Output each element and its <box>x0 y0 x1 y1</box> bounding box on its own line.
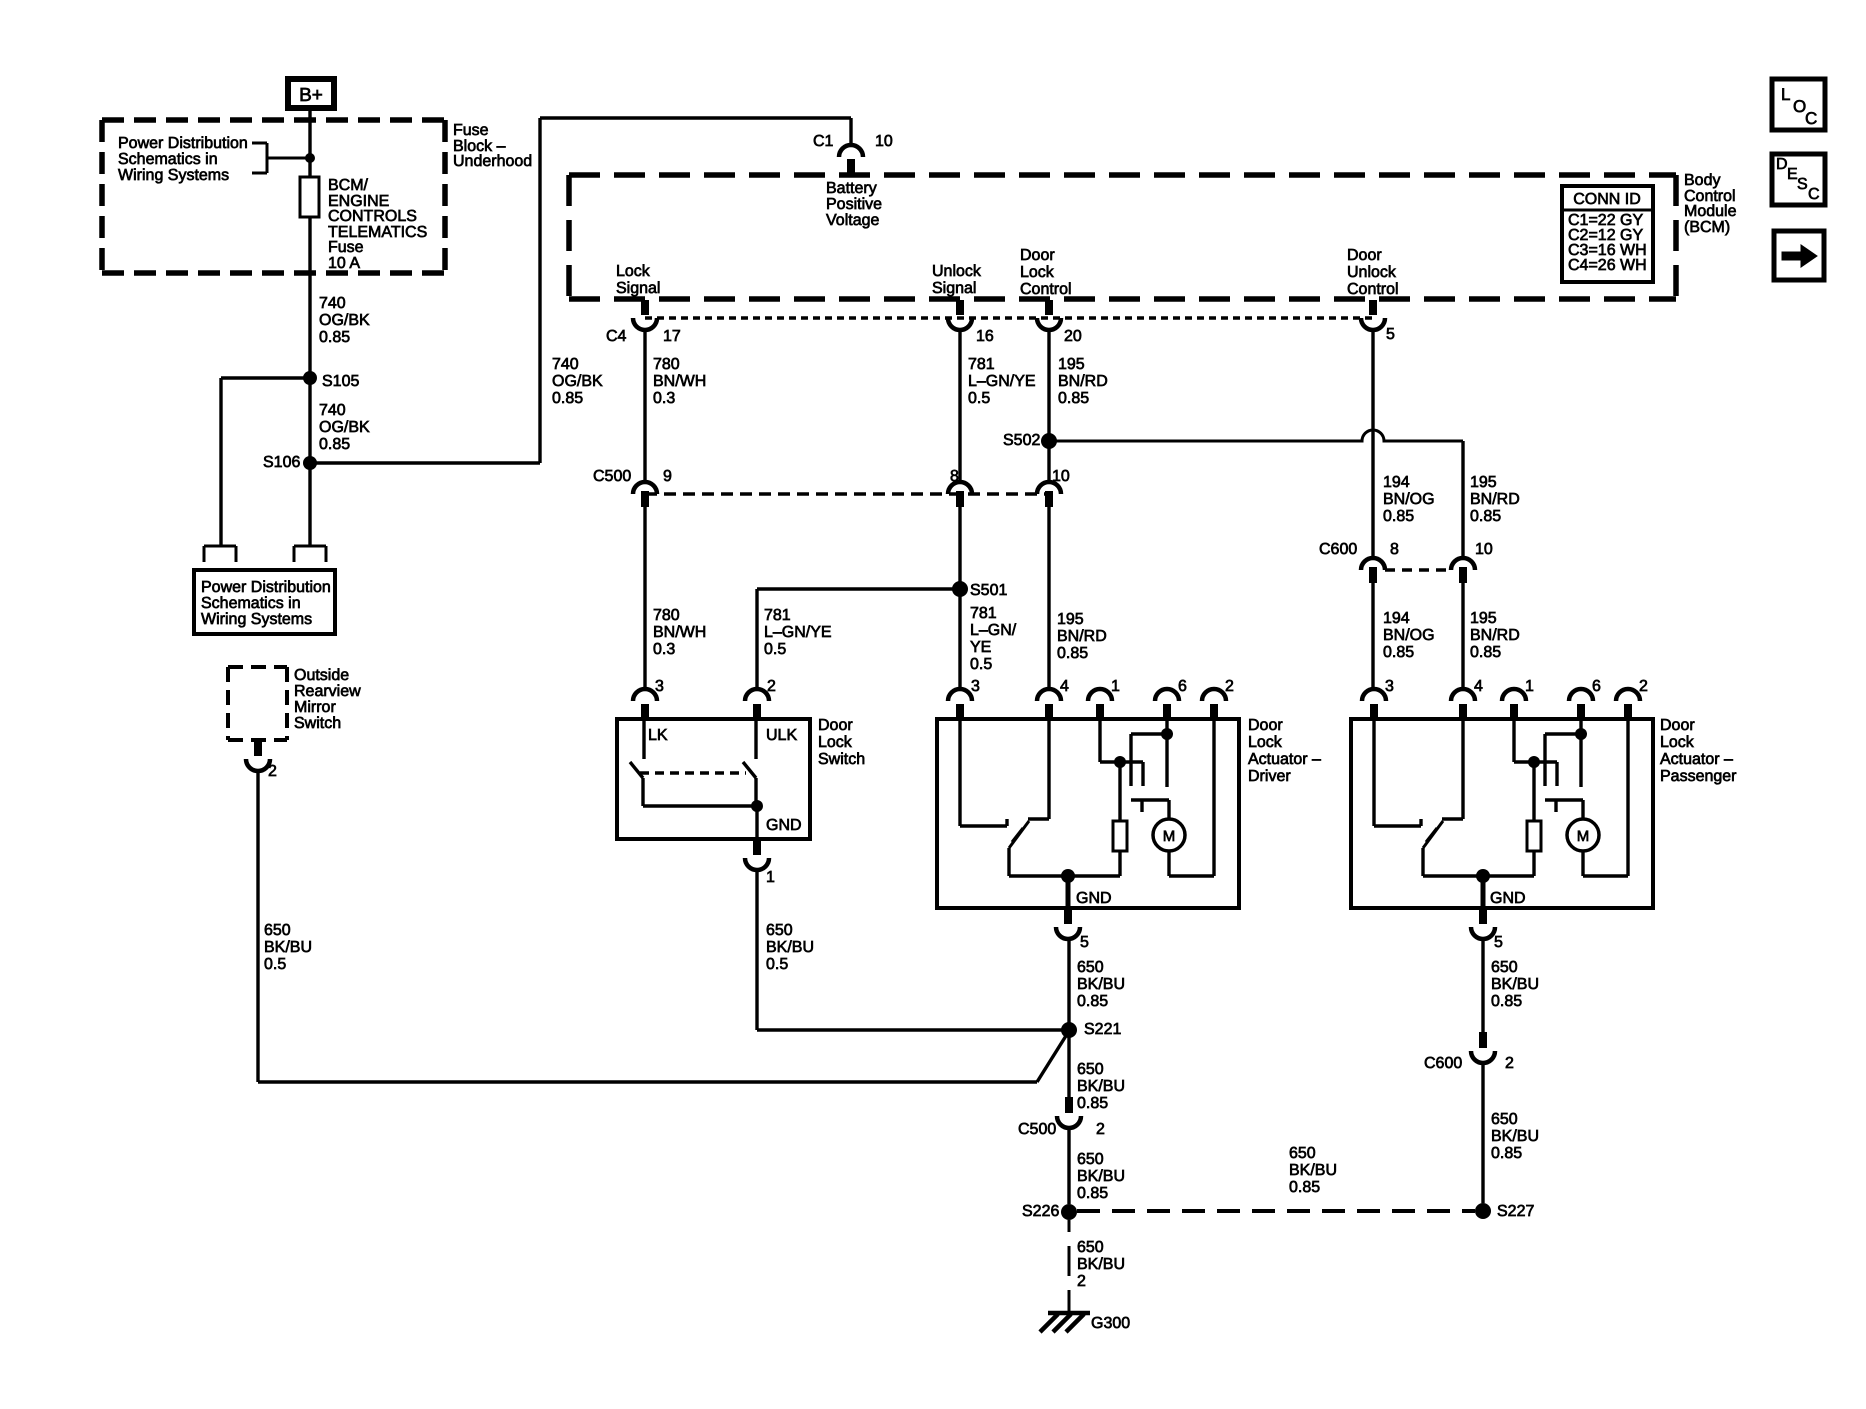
svg-text:0.85: 0.85 <box>1057 645 1088 662</box>
svg-text:0.3: 0.3 <box>653 641 675 658</box>
svg-text:OG/BK: OG/BK <box>552 373 603 390</box>
svg-text:Outside: Outside <box>294 667 349 684</box>
svg-text:Underhood: Underhood <box>453 153 532 170</box>
svg-text:S105: S105 <box>322 373 359 390</box>
svg-text:5: 5 <box>1386 326 1395 343</box>
svg-text:6: 6 <box>1178 678 1187 695</box>
svg-text:Rearview: Rearview <box>294 683 361 700</box>
svg-text:CONTROLS: CONTROLS <box>328 208 417 225</box>
svg-text:GND: GND <box>766 817 802 834</box>
svg-text:D: D <box>1776 156 1788 173</box>
svg-text:6: 6 <box>1592 678 1601 695</box>
svg-text:2: 2 <box>1077 1273 1086 1290</box>
svg-text:740: 740 <box>319 295 346 312</box>
svg-text:781: 781 <box>968 356 995 373</box>
svg-text:C600: C600 <box>1319 541 1357 558</box>
svg-text:S106: S106 <box>263 454 300 471</box>
svg-text:Voltage: Voltage <box>826 212 879 229</box>
svg-text:Module: Module <box>1684 203 1737 220</box>
svg-text:650: 650 <box>1077 959 1104 976</box>
svg-text:Power Distribution: Power Distribution <box>201 579 331 596</box>
svg-text:0.85: 0.85 <box>319 329 350 346</box>
svg-text:Door: Door <box>1020 247 1055 264</box>
svg-text:Door: Door <box>1347 247 1382 264</box>
svg-text:2: 2 <box>767 678 776 695</box>
svg-text:M: M <box>1577 828 1590 845</box>
svg-text:740: 740 <box>552 356 579 373</box>
svg-text:3: 3 <box>655 678 664 695</box>
svg-text:BN/RD: BN/RD <box>1470 491 1520 508</box>
svg-text:BK/BU: BK/BU <box>1491 976 1539 993</box>
svg-text:Wiring Systems: Wiring Systems <box>201 611 312 628</box>
svg-text:GND: GND <box>1490 890 1526 907</box>
svg-text:B+: B+ <box>299 85 323 106</box>
svg-text:2: 2 <box>1505 1055 1514 1072</box>
svg-text:Unlock: Unlock <box>932 263 982 280</box>
svg-text:L: L <box>1781 85 1790 104</box>
svg-text:S: S <box>1797 176 1808 193</box>
svg-text:LK: LK <box>648 727 668 744</box>
svg-text:20: 20 <box>1064 328 1082 345</box>
svg-text:0.5: 0.5 <box>764 641 786 658</box>
svg-text:0.85: 0.85 <box>1470 508 1501 525</box>
svg-text:9: 9 <box>663 468 672 485</box>
svg-text:0.5: 0.5 <box>968 390 990 407</box>
svg-text:BN/OG: BN/OG <box>1383 627 1435 644</box>
svg-text:OG/BK: OG/BK <box>319 312 370 329</box>
svg-text:1: 1 <box>1525 678 1534 695</box>
svg-text:8: 8 <box>950 468 959 485</box>
svg-text:OG/BK: OG/BK <box>319 419 370 436</box>
svg-text:1: 1 <box>1111 678 1120 695</box>
svg-text:2: 2 <box>1225 678 1234 695</box>
svg-text:8: 8 <box>1390 541 1399 558</box>
svg-text:650: 650 <box>1077 1239 1104 1256</box>
svg-text:Body: Body <box>1684 172 1720 189</box>
svg-text:10: 10 <box>1475 541 1493 558</box>
svg-text:BK/BU: BK/BU <box>264 939 312 956</box>
svg-text:195: 195 <box>1470 474 1497 491</box>
svg-text:0.85: 0.85 <box>552 390 583 407</box>
svg-text:BN/RD: BN/RD <box>1057 628 1107 645</box>
svg-text:0.85: 0.85 <box>1491 1145 1522 1162</box>
svg-text:BN/WH: BN/WH <box>653 373 706 390</box>
svg-text:C4: C4 <box>606 328 627 345</box>
svg-text:Driver: Driver <box>1248 768 1291 785</box>
svg-text:CONN ID: CONN ID <box>1573 191 1641 208</box>
svg-text:L–GN/YE: L–GN/YE <box>968 373 1036 390</box>
svg-text:Lock: Lock <box>818 734 853 751</box>
svg-text:10: 10 <box>875 133 893 150</box>
svg-text:ULK: ULK <box>766 727 797 744</box>
svg-text:Lock: Lock <box>1020 264 1055 281</box>
svg-text:195: 195 <box>1470 610 1497 627</box>
svg-text:194: 194 <box>1383 610 1410 627</box>
svg-text:2: 2 <box>1096 1121 1105 1138</box>
svg-text:0.85: 0.85 <box>1383 644 1414 661</box>
svg-text:GND: GND <box>1076 890 1112 907</box>
svg-text:Control: Control <box>1347 281 1399 298</box>
svg-text:S501: S501 <box>970 582 1007 599</box>
svg-text:Positive: Positive <box>826 196 882 213</box>
svg-text:0.5: 0.5 <box>264 956 286 973</box>
svg-text:650: 650 <box>264 922 291 939</box>
svg-text:0.85: 0.85 <box>1077 1095 1108 1112</box>
svg-text:0.5: 0.5 <box>766 956 788 973</box>
svg-text:Switch: Switch <box>294 715 341 732</box>
svg-text:C: C <box>1808 186 1820 203</box>
svg-text:S226: S226 <box>1022 1203 1059 1220</box>
svg-text:0.85: 0.85 <box>1077 993 1108 1010</box>
svg-text:5: 5 <box>1494 934 1503 951</box>
svg-text:Door: Door <box>1660 717 1695 734</box>
svg-text:C4=26 WH: C4=26 WH <box>1568 257 1647 274</box>
svg-text:BN/RD: BN/RD <box>1470 627 1520 644</box>
svg-text:781: 781 <box>970 605 997 622</box>
svg-text:5: 5 <box>1080 934 1089 951</box>
svg-text:194: 194 <box>1383 474 1410 491</box>
svg-text:Actuator –: Actuator – <box>1660 751 1733 768</box>
svg-text:BN/WH: BN/WH <box>653 624 706 641</box>
svg-text:Lock: Lock <box>616 263 651 280</box>
svg-text:BN/RD: BN/RD <box>1058 373 1108 390</box>
svg-text:780: 780 <box>653 607 680 624</box>
svg-text:BK/BU: BK/BU <box>1077 1168 1125 1185</box>
svg-text:3: 3 <box>1385 678 1394 695</box>
svg-text:650: 650 <box>1077 1061 1104 1078</box>
svg-text:195: 195 <box>1058 356 1085 373</box>
svg-text:BK/BU: BK/BU <box>1077 1256 1125 1273</box>
svg-text:Battery: Battery <box>826 180 877 197</box>
svg-text:Signal: Signal <box>932 280 976 297</box>
svg-text:10 A: 10 A <box>328 255 360 272</box>
svg-text:0.85: 0.85 <box>1383 508 1414 525</box>
svg-text:Wiring Systems: Wiring Systems <box>118 167 229 184</box>
svg-text:0.85: 0.85 <box>1289 1179 1320 1196</box>
svg-text:Fuse: Fuse <box>453 122 489 139</box>
svg-text:650: 650 <box>766 922 793 939</box>
svg-text:BK/BU: BK/BU <box>1491 1128 1539 1145</box>
svg-text:2: 2 <box>268 763 277 780</box>
svg-text:BK/BU: BK/BU <box>1077 1078 1125 1095</box>
svg-text:Passenger: Passenger <box>1660 768 1737 785</box>
svg-text:Switch: Switch <box>818 751 865 768</box>
svg-text:BK/BU: BK/BU <box>766 939 814 956</box>
svg-text:195: 195 <box>1057 611 1084 628</box>
svg-text:Door: Door <box>1248 717 1283 734</box>
svg-text:YE: YE <box>970 639 991 656</box>
svg-text:10: 10 <box>1052 468 1070 485</box>
svg-text:G300: G300 <box>1091 1315 1130 1332</box>
svg-text:17: 17 <box>663 328 681 345</box>
svg-text:4: 4 <box>1474 678 1483 695</box>
svg-text:Unlock: Unlock <box>1347 264 1397 281</box>
svg-text:0.85: 0.85 <box>319 436 350 453</box>
svg-text:740: 740 <box>319 402 346 419</box>
svg-text:Signal: Signal <box>616 280 660 297</box>
svg-text:M: M <box>1163 828 1176 845</box>
svg-text:S502: S502 <box>1003 432 1040 449</box>
svg-text:Door: Door <box>818 717 853 734</box>
svg-text:0.5: 0.5 <box>970 656 992 673</box>
svg-text:(BCM): (BCM) <box>1684 219 1730 236</box>
svg-text:1: 1 <box>766 869 775 886</box>
svg-text:0.85: 0.85 <box>1058 390 1089 407</box>
svg-text:0.85: 0.85 <box>1491 993 1522 1010</box>
svg-text:2: 2 <box>1639 678 1648 695</box>
svg-text:Power Distribution: Power Distribution <box>118 135 248 152</box>
svg-text:BN/OG: BN/OG <box>1383 491 1435 508</box>
svg-text:4: 4 <box>1060 678 1069 695</box>
svg-text:Control: Control <box>1020 281 1072 298</box>
svg-text:650: 650 <box>1491 959 1518 976</box>
svg-text:650: 650 <box>1289 1145 1316 1162</box>
svg-text:650: 650 <box>1077 1151 1104 1168</box>
svg-text:Fuse: Fuse <box>328 239 364 256</box>
svg-text:Lock: Lock <box>1248 734 1283 751</box>
svg-text:Lock: Lock <box>1660 734 1695 751</box>
svg-text:0.85: 0.85 <box>1077 1185 1108 1202</box>
svg-text:S227: S227 <box>1497 1203 1534 1220</box>
svg-text:BCM/: BCM/ <box>328 177 369 194</box>
svg-text:3: 3 <box>971 678 980 695</box>
svg-text:C: C <box>1805 109 1817 128</box>
svg-text:Schematics in: Schematics in <box>118 151 218 168</box>
svg-text:L–GN/YE: L–GN/YE <box>764 624 832 641</box>
svg-text:0.85: 0.85 <box>1470 644 1501 661</box>
svg-text:C500: C500 <box>1018 1121 1056 1138</box>
svg-text:0.3: 0.3 <box>653 390 675 407</box>
svg-text:S221: S221 <box>1084 1021 1121 1038</box>
svg-text:BK/BU: BK/BU <box>1077 976 1125 993</box>
svg-text:Schematics in: Schematics in <box>201 595 301 612</box>
svg-text:Actuator –: Actuator – <box>1248 751 1321 768</box>
svg-text:Mirror: Mirror <box>294 699 336 716</box>
svg-text:BK/BU: BK/BU <box>1289 1162 1337 1179</box>
svg-text:C600: C600 <box>1424 1055 1462 1072</box>
svg-text:C500: C500 <box>593 468 631 485</box>
svg-text:C1: C1 <box>813 133 834 150</box>
svg-text:780: 780 <box>653 356 680 373</box>
svg-text:781: 781 <box>764 607 791 624</box>
svg-text:650: 650 <box>1491 1111 1518 1128</box>
svg-text:16: 16 <box>976 328 994 345</box>
svg-text:L–GN/: L–GN/ <box>970 622 1017 639</box>
